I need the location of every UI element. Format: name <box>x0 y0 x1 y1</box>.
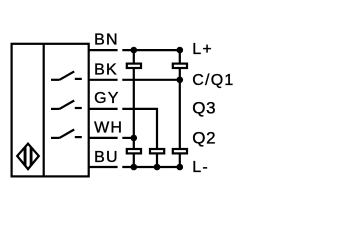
svg-text:Q2: Q2 <box>192 128 216 147</box>
svg-text:BN: BN <box>94 31 119 48</box>
svg-text:GY: GY <box>94 90 120 107</box>
svg-text:L+: L+ <box>192 41 213 58</box>
svg-text:WH: WH <box>94 119 123 136</box>
svg-text:Q3: Q3 <box>192 98 216 117</box>
svg-text:L-: L- <box>192 159 209 176</box>
svg-text:BK: BK <box>94 61 118 78</box>
svg-text:C/Q1: C/Q1 <box>192 72 234 89</box>
svg-text:BU: BU <box>94 149 119 166</box>
